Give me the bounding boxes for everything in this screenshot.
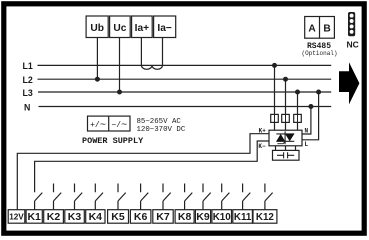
wire L2 to fuse 2	[285, 79, 287, 130]
svg-text:K12: K12	[256, 212, 275, 223]
wire N	[39, 106, 332, 108]
svg-text:K2: K2	[47, 211, 61, 223]
svg-text:L: L	[305, 141, 309, 148]
terminal K12	[253, 210, 277, 224]
svg-text:K6: K6	[134, 211, 148, 223]
switch K2	[54, 184, 62, 210]
terminal K2	[44, 210, 64, 224]
wire F1 line through	[275, 114, 298, 122]
svg-text:K1: K1	[27, 211, 41, 223]
switch K5	[118, 184, 126, 210]
wire L1 to fuse 1	[274, 65, 276, 130]
svg-text:K5: K5	[111, 211, 125, 223]
switch K12	[265, 184, 273, 210]
RS485 terminal A/B	[305, 17, 335, 39]
switch K6	[141, 184, 149, 210]
svg-text:L2: L2	[23, 75, 33, 85]
switch K8	[185, 184, 193, 210]
fuse F2	[282, 114, 290, 122]
wire K+ from 12V bus	[17, 134, 269, 210]
switch K7	[163, 184, 171, 210]
switch K11	[243, 184, 251, 210]
svg-text:+/~: +/~	[90, 120, 106, 132]
svg-text:K11: K11	[234, 212, 252, 223]
node Ub-L2	[95, 77, 100, 82]
wire K- from K1 bus	[35, 141, 269, 192]
wire L3 to fuse 3	[297, 92, 299, 130]
wire L3	[38, 91, 331, 93]
capacitor box C1	[273, 150, 300, 160]
mains output arrow	[339, 62, 359, 104]
switch K4	[95, 184, 103, 210]
svg-text:K4: K4	[89, 211, 103, 223]
svg-text:85~265V AC: 85~265V AC	[137, 118, 182, 126]
svg-text:K10: K10	[213, 212, 232, 223]
wire L1	[38, 64, 332, 66]
svg-text:Ia+: Ia+	[135, 23, 149, 34]
terminal K9	[195, 210, 210, 224]
fuse F3	[294, 114, 302, 122]
terminal K11	[233, 210, 253, 224]
svg-text:K7: K7	[156, 211, 170, 223]
switch K10	[222, 184, 230, 210]
wire Uc to L3	[119, 38, 121, 93]
wire U1 to capacitor box	[276, 146, 296, 151]
svg-text:Ia−: Ia−	[157, 23, 171, 34]
terminal K8	[175, 210, 194, 224]
svg-text:K3: K3	[68, 211, 82, 223]
capacitor symbol	[277, 152, 294, 158]
terminal K10	[212, 210, 232, 224]
svg-text:K9: K9	[196, 211, 210, 223]
wire Ia+ down to L1	[140, 38, 142, 66]
svg-text:NC: NC	[347, 40, 359, 50]
node Uc-L3	[117, 90, 122, 95]
wire L2	[38, 78, 332, 80]
wire Ub to L2	[96, 38, 98, 80]
wire L from block	[302, 92, 319, 140]
svg-text:Uc: Uc	[113, 23, 126, 34]
terminal 12V	[8, 210, 25, 224]
terminal K3	[65, 210, 85, 224]
svg-text:12V: 12V	[9, 213, 24, 222]
CT loop under L1	[141, 65, 162, 69]
triac symbol in U1	[276, 131, 294, 144]
node N tap	[308, 104, 313, 109]
svg-text:A: A	[308, 24, 316, 35]
svg-text:Ub: Ub	[90, 23, 104, 34]
node L3 tap 2	[316, 90, 321, 95]
terminal block Ub/Uc/Ia+/Ia-	[86, 16, 176, 38]
node L2 tap	[283, 77, 288, 82]
NC connector	[348, 12, 355, 36]
svg-text:N: N	[24, 102, 30, 112]
svg-text:120~370V DC: 120~370V DC	[137, 126, 186, 134]
terminal K1	[26, 210, 42, 224]
wire N from block	[302, 107, 311, 135]
switch K9	[203, 184, 211, 210]
switch K3	[75, 184, 83, 210]
svg-text:(Optional): (Optional)	[301, 50, 337, 57]
svg-text:L3: L3	[23, 88, 33, 98]
node L1 tap	[272, 63, 277, 68]
relay block U1	[269, 130, 302, 146]
svg-text:−/~: −/~	[111, 120, 127, 132]
svg-text:K−: K−	[258, 143, 266, 150]
svg-text:B: B	[323, 24, 330, 35]
svg-text:L1: L1	[23, 61, 33, 71]
svg-text:POWER SUPPLY: POWER SUPPLY	[82, 136, 144, 146]
terminal K6	[130, 210, 151, 224]
power supply terminals	[88, 116, 131, 131]
terminal K7	[153, 210, 173, 224]
fuse F1	[271, 114, 279, 122]
wire Ia- down to L1	[162, 38, 164, 66]
node L3 tap	[295, 90, 300, 95]
terminal K4	[86, 210, 105, 224]
svg-text:K8: K8	[178, 211, 192, 223]
terminal K5	[108, 210, 129, 224]
switch K1	[35, 193, 43, 210]
